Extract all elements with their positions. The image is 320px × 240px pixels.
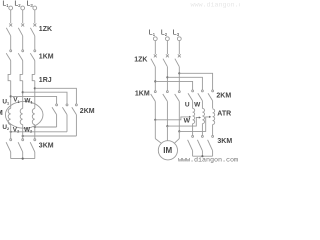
wire 1KM pole1 lead down to motor [154,101,161,143]
wire branch L1 to 2KM pole1 (right) + junction [154,80,192,90]
label 1KM (right) [135,90,150,97]
svg-text:IM: IM [163,146,172,155]
contactor contact 2KM pole 2 (right) [198,90,204,108]
contactor contact 3KM pole 1 (right) [188,135,194,156]
label 1ZK (left) [39,26,52,33]
label ATR [217,111,231,118]
svg-text:1KM: 1KM [39,53,54,60]
wire motor bottom terminal 2 to 3KM [22,125,24,139]
svg-text:3KM: 3KM [217,138,232,145]
node L3 (right supply terminal) [173,30,181,55]
contactor contact 1KM pole 2 (right) [163,91,169,102]
label 1RJ (left) [39,77,52,84]
wire branch L2 to 2KM pole2 (right) + junction [166,76,202,90]
svg-text:3KM: 3KM [39,142,54,149]
wire 1KM pole3 lead down to motor [174,101,180,143]
node L1 (right supply terminal) [149,30,157,55]
svg-text:1ZK: 1ZK [134,56,147,63]
label V2 [13,126,19,133]
label W2 [24,126,32,133]
label 1KM (left) [39,53,54,60]
wire branch L3 to 2KM pole3 (right) + junction [178,72,212,90]
contactor contact 3KM pole 2 (right) [197,135,203,156]
contactor contact 3KM(star) pole 1 [6,139,12,159]
contactor contact 1KM pole 2 [18,50,23,75]
contactor contact 1KM pole 1 (right) [151,91,157,102]
svg-text:1KM: 1KM [135,90,150,97]
svg-text:ATR: ATR [217,111,231,118]
label U (ATR tap) [185,102,190,109]
motor M (left, 6-terminal) [5,101,43,128]
knife switch 1ZK pole 3 [30,24,36,50]
thermal relay 1RJ heater pole 3 [32,74,35,108]
svg-text:W: W [184,118,191,125]
svg-text:1ZK: 1ZK [39,26,52,33]
contactor contact 1KM pole 3 [30,50,35,75]
label 3KM (left) [39,142,54,149]
label 1ZK (right) [134,56,147,63]
watermark www.diangon.com [178,156,238,164]
wire branch U1 to 2KM pole1 + junction [10,95,57,104]
svg-text:2KM: 2KM [80,108,95,115]
contactor contact 2KM pole 1 (right) [188,90,194,108]
node L3 (left supply terminal) [27,1,37,24]
label 2KM (right) [216,92,231,99]
autotransformer ATR winding 3 [213,109,215,136]
contactor contact 2KM(delta) pole 1 [52,104,58,127]
svg-text:U: U [185,102,190,109]
svg-text:www.diangon.com: www.diangon.com [191,2,241,10]
label U2 [2,124,9,131]
wire 1KM pole2 lead down to motor [166,101,168,140]
svg-text:2KM: 2KM [216,92,231,99]
wire delta link 2KM pole2 to U2 [10,131,67,133]
wire star point bar (right) [193,155,213,157]
contactor contact 2KM(delta) pole 3 [72,104,78,136]
motor winding U1-U2 [8,109,11,125]
wire delta link 2KM pole3 to V2 [22,135,77,137]
svg-text:W: W [194,102,201,109]
wire delta link 2KM pole1 to W2 [34,126,57,128]
label 3KM (right) [217,138,232,145]
svg-text:M: M [0,108,3,117]
knife switch 1ZK pole 2 (right) [163,54,169,90]
contactor contact 2KM pole 3 (right) [208,90,214,108]
contactor contact 3KM(star) pole 2 [18,139,24,159]
thermal relay 1RJ heater pole 2 [20,74,23,108]
knife switch 1ZK pole 1 [6,24,12,50]
label U1 [2,98,9,105]
wire motor bottom terminal 1 to 3KM [10,125,12,139]
contactor contact 3KM(star) pole 3 [30,139,36,159]
contactor contact 1KM pole 3 (right) [175,91,181,102]
motor winding W1-W2 [32,109,35,125]
wire motor bottom terminal 3 to 3KM [34,125,36,139]
contactor contact 3KM pole 3 (right) [208,135,214,156]
label W1 [24,97,32,104]
wire ATR tap 3 (arrow) to phase 3 [179,116,211,132]
motor 1M (right) [158,141,177,160]
knife switch 1ZK pole 3 (right) [175,54,181,90]
wire branch W1 to 2KM pole3 + junction [34,87,77,104]
label 2KM (left) [80,108,95,115]
autotransformer ATR winding 1 [193,108,195,135]
label V1 [13,97,19,104]
motor winding V1-V2 [20,109,23,125]
contactor contact 1KM pole 1 [6,50,11,75]
label M (clipped at edge) [0,108,3,117]
wire ATR tap 1 (arrow) to phase 1 [155,116,191,120]
wire star point bar (left) [11,158,35,160]
knife switch 1ZK pole 2 [18,24,24,50]
svg-text:www.diangon.com: www.diangon.com [178,156,238,164]
label W (ATR tap) [194,102,201,109]
node L1 (left supply terminal) [2,1,12,24]
knife switch 1ZK pole 1 (right) [151,54,157,90]
node L2 (right supply terminal) [161,30,169,55]
svg-text:1RJ: 1RJ [39,77,52,84]
contactor contact 2KM(delta) pole 2 [62,104,68,132]
watermark www.diangon.com (faint, top right) [191,2,251,10]
wire branch V1 to 2KM pole2 + junction [22,91,67,104]
node L2 (left supply terminal) [14,1,24,24]
wire ATR tap 2 (arrow) to phase 2 [167,116,201,126]
label W (tap1 box) [184,118,191,125]
thermal relay 1RJ heater pole 1 [8,74,11,108]
autotransformer ATR winding 2 [202,108,204,135]
